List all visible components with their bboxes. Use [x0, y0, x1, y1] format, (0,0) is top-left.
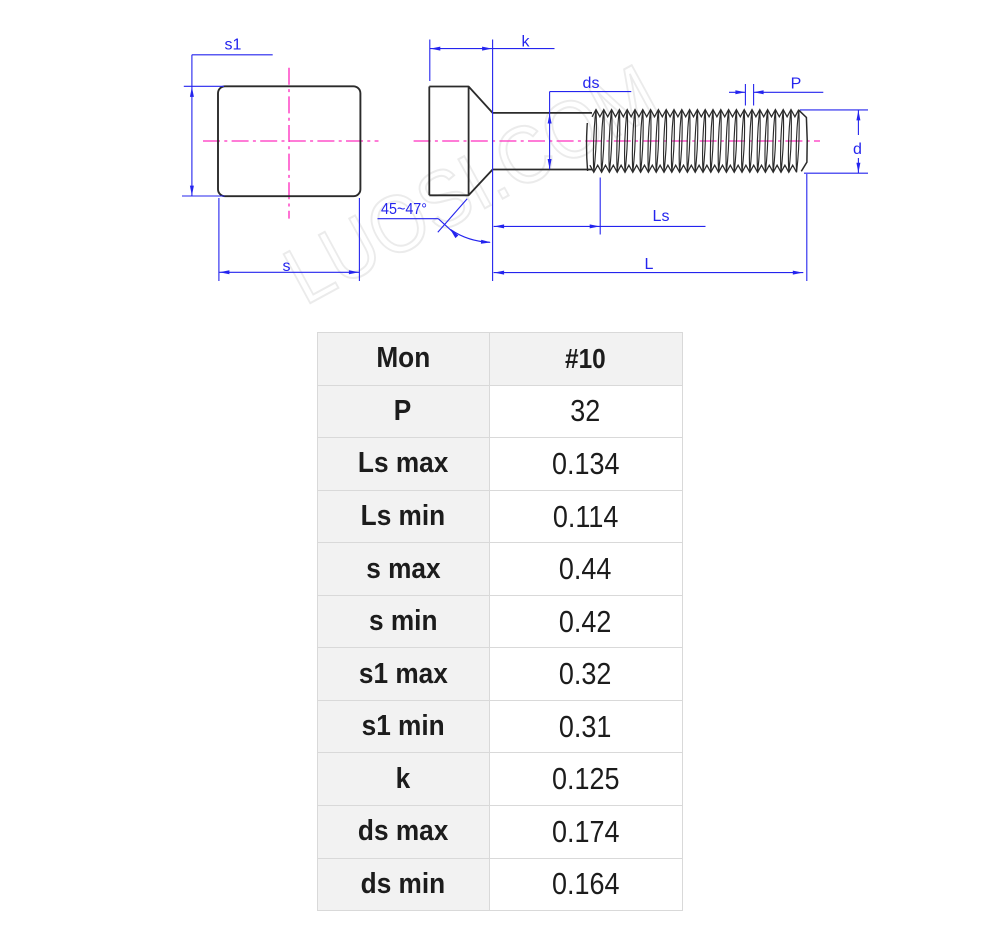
svg-text:P: P — [791, 76, 802, 93]
centerline square horizontal — [203, 140, 379, 142]
thread crest bottom edge — [590, 165, 797, 172]
thread crest top edge — [592, 110, 799, 117]
svg-text:45~47°: 45~47° — [381, 201, 427, 218]
dimension k — [430, 40, 555, 282]
specification table — [317, 332, 683, 911]
dimension P — [729, 84, 823, 106]
centerline square vertical — [288, 68, 290, 219]
square head outline (top view) — [218, 86, 360, 196]
screw end face — [799, 110, 807, 171]
dimension ds — [550, 92, 632, 170]
dimension L — [494, 174, 807, 281]
svg-text:Ls: Ls — [653, 208, 670, 225]
angle dimension 45~47 deg — [378, 199, 491, 243]
svg-text:L: L — [645, 256, 654, 273]
thread runout curve — [587, 123, 588, 171]
svg-text:s1: s1 — [225, 37, 242, 54]
svg-text:k: k — [522, 34, 531, 51]
thread flanks — [593, 110, 799, 173]
dimension s1 — [182, 55, 273, 196]
svg-text:ds: ds — [583, 75, 600, 92]
screw head outline (side view) — [429, 87, 592, 196]
svg-text:s: s — [283, 258, 291, 275]
dimension d — [800, 110, 868, 173]
svg-text:d: d — [853, 141, 862, 158]
centerline screw axis — [414, 140, 820, 142]
dimension Ls — [494, 178, 706, 235]
dimension s — [219, 198, 360, 281]
